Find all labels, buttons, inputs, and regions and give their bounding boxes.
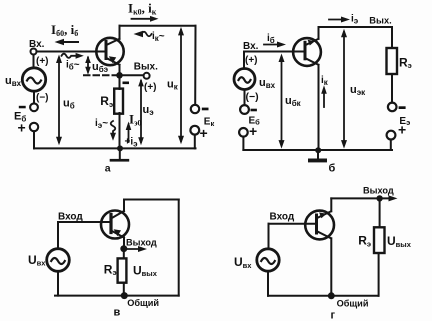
svg-text:Вх.: Вх. [29, 39, 45, 50]
source U_vx v [47, 249, 70, 272]
wire top rail v [124, 199, 179, 201]
wire top rail b [319, 26, 393, 28]
svg-text:iк~: iк~ [152, 31, 165, 43]
label minus E_k a [202, 108, 209, 111]
svg-text:Iб0, iб: Iб0, iб [51, 22, 78, 38]
wire input drop b [243, 52, 245, 69]
dashed line u_be a [84, 74, 117, 76]
svg-text:Вх.: Вх. [243, 41, 259, 52]
transistor VT b [293, 38, 321, 66]
arrow i_k b [321, 85, 327, 107]
wire right side b [391, 27, 393, 48]
svg-text:Общий: Общий [337, 299, 369, 309]
wire node to resistor v [123, 249, 125, 259]
label minus E_b a [19, 106, 26, 109]
ground b [308, 150, 327, 162]
wire emitter vertical v [123, 238, 125, 249]
wire source to rail v [57, 271, 59, 295]
arrow u_ek double b [341, 29, 347, 149]
wire bottom rail g [268, 295, 378, 297]
svg-text:а: а [105, 163, 111, 175]
transistor VT v [101, 211, 129, 239]
node ground junction g [328, 292, 335, 299]
transistor VT g [305, 211, 334, 240]
source u_vx b [234, 69, 255, 90]
wire source to terminal b [244, 90, 246, 106]
node ground junction b [315, 147, 321, 153]
wire resistor to rail a [119, 113, 121, 148]
wire resistor to rail g [378, 253, 380, 296]
arrow u_be double a [85, 56, 91, 75]
terminal E_b minus b [240, 105, 249, 114]
svg-text:+: + [249, 123, 257, 139]
wire bottom rail v [55, 295, 179, 297]
wire right side a [194, 26, 196, 105]
label minus out a [123, 82, 130, 85]
svg-text:(+): (+) [245, 55, 258, 66]
wire input drop g [268, 224, 270, 249]
svg-text:в: в [114, 307, 121, 319]
svg-text:Вход: Вход [58, 212, 83, 223]
terminal Vyx a [144, 73, 150, 79]
wire node to resistor a [119, 75, 121, 89]
wire terminal to source a [33, 55, 35, 69]
wire right side v [178, 200, 180, 296]
svg-text:Выход: Выход [363, 185, 394, 195]
resistor R_e v [118, 258, 127, 282]
arrow i_b~ wavy a [62, 53, 84, 59]
svg-text:(+): (+) [144, 82, 157, 93]
resistor R_e b [387, 48, 398, 74]
wire collector vertical v [123, 200, 125, 212]
wire bottom rail b [243, 149, 392, 151]
wire top rail a [120, 25, 196, 27]
wire bottom rail a [34, 147, 196, 149]
label minus E_b b [251, 109, 257, 112]
arrow u_e double a [138, 78, 144, 145]
wire emitter vertical a [119, 65, 121, 76]
svg-text:(+): (+) [36, 56, 49, 67]
svg-text:+: + [398, 122, 406, 138]
ground a [110, 148, 130, 161]
svg-text:Вых.: Вых. [134, 62, 158, 73]
svg-text:Общий: Общий [127, 298, 159, 308]
arrow i_e b [329, 17, 350, 23]
transistor VT a [96, 38, 123, 65]
terminal E_e plus b [387, 131, 396, 140]
terminal E_b plus a [30, 123, 38, 131]
arrow I_e0 a [126, 122, 132, 143]
node bottom junction a [117, 145, 123, 151]
wire source to terminal a [33, 91, 35, 103]
svg-text:(−): (−) [36, 93, 49, 104]
svg-text:(−): (−) [246, 91, 259, 103]
wire resistor to terminal b [391, 74, 393, 103]
wire base g [269, 223, 316, 225]
node output junction v [120, 245, 127, 252]
wire resistor to rail v [123, 283, 125, 296]
source u_vx a [22, 68, 45, 91]
resistor R_e a [114, 89, 123, 114]
arrow output v [124, 246, 147, 252]
wire terminal to rail b2 [390, 140, 392, 151]
wire collector vertical g [330, 238, 332, 295]
arrow I_k0 a [132, 16, 159, 22]
arrow i_e~ wavy a [110, 121, 116, 141]
wire emitter vertical b [318, 27, 320, 39]
svg-text:г: г [331, 310, 336, 321]
wire emitter vertical g [330, 198, 332, 211]
svg-text:iэ~: iэ~ [95, 118, 108, 130]
terminal E_k minus a [191, 105, 199, 113]
wire collector vertical a [119, 26, 121, 39]
resistor R_e g [374, 227, 385, 253]
node bottom junction v [121, 292, 128, 299]
svg-text:б: б [329, 163, 336, 175]
terminal E_k plus a [190, 126, 199, 135]
wire source to rail g [267, 271, 269, 296]
wire node to output a [120, 74, 144, 76]
wire base b [244, 51, 304, 53]
node output junction g [376, 195, 382, 201]
arrow u_k double a [178, 27, 184, 144]
label minus E_e b [399, 106, 406, 109]
wire terminal to bottom rail a [33, 131, 35, 148]
terminal Vx a [31, 49, 37, 55]
wire terminal to rail b [242, 137, 244, 150]
terminal E_b plus b [239, 128, 248, 137]
node emitter junction a [116, 72, 123, 79]
wire E_k to bottom rail a [194, 135, 196, 149]
source U_vx g [257, 249, 279, 271]
svg-text:+: + [200, 125, 208, 141]
wire collector vertical b [318, 65, 320, 150]
arrow u_bk double b [279, 54, 285, 149]
svg-text:Выход: Выход [126, 237, 157, 247]
terminal E_b minus a [30, 103, 38, 111]
wire resistor branch top g [379, 198, 381, 227]
wire base v [58, 221, 110, 223]
svg-text:+: + [18, 119, 26, 135]
arrow i_b b [264, 42, 286, 48]
wire base a [37, 51, 106, 53]
arrow I_b0 a [55, 39, 79, 45]
svg-text:Вход: Вход [270, 212, 295, 223]
arrow u_b double a [56, 55, 62, 146]
wire top rail with arrow g [331, 195, 397, 201]
terminal E_e minus b [388, 103, 397, 112]
wire input drop v [57, 222, 59, 249]
svg-text:Вых.: Вых. [369, 16, 391, 26]
arrow i_k~ wavy a [134, 31, 152, 37]
svg-text:iб~: iб~ [66, 59, 80, 71]
